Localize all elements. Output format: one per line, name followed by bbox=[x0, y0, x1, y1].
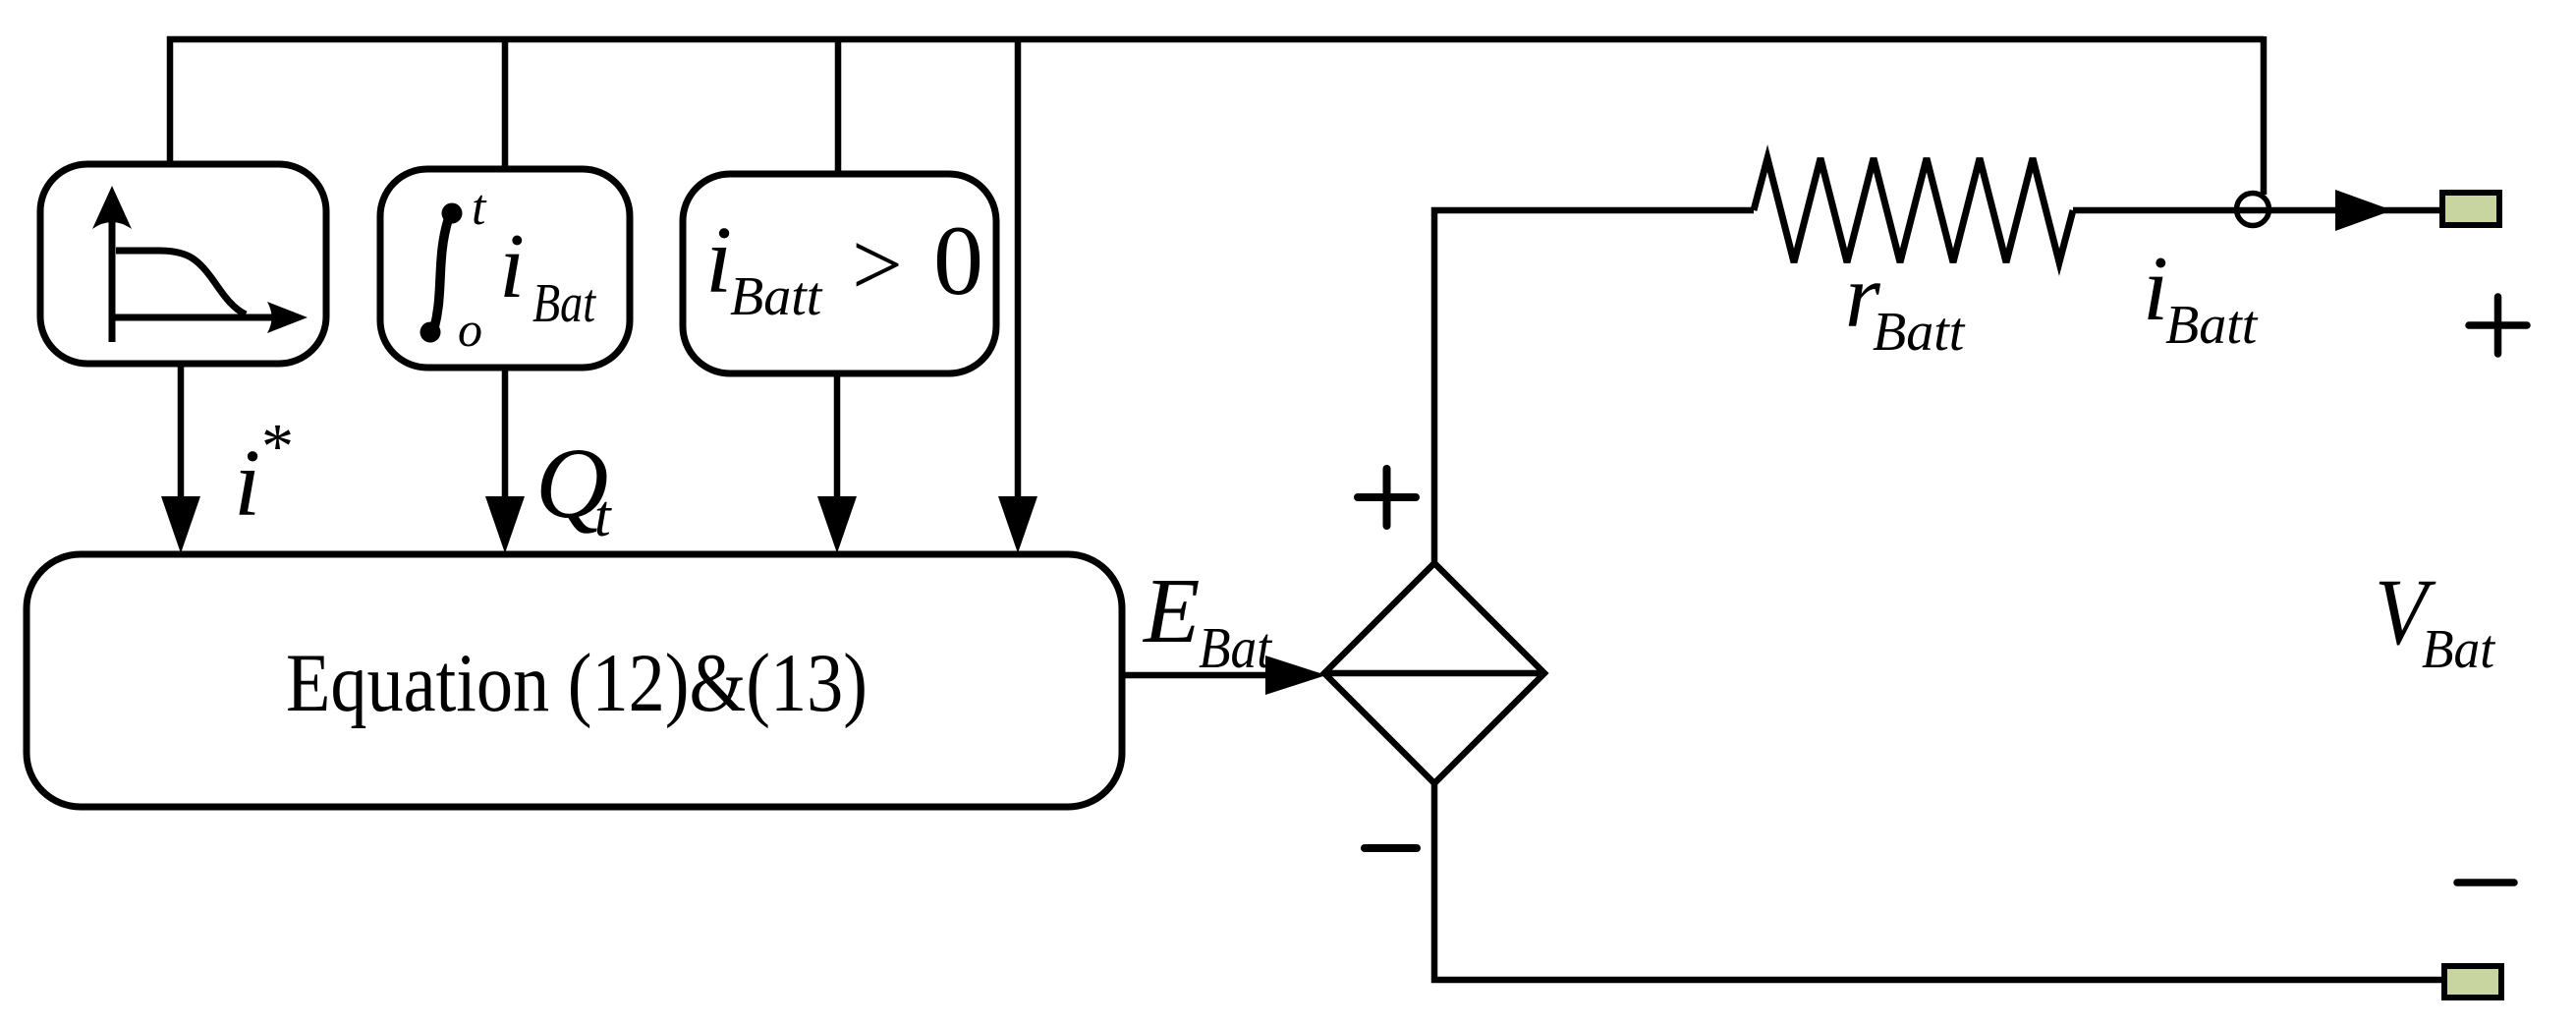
svg-text:i: i bbox=[705, 207, 732, 314]
wire drop direct to equation box bbox=[1015, 36, 1022, 498]
lookup graph curve bbox=[116, 251, 246, 314]
wire source bottom to minus terminal bbox=[1434, 783, 2444, 980]
lookup graph y-axis bbox=[109, 221, 116, 342]
integrator limits and integrand bbox=[458, 180, 596, 357]
arrow integrator to equation box bbox=[502, 368, 509, 498]
svg-text:i: i bbox=[234, 430, 260, 537]
plus terminal bbox=[2442, 193, 2499, 225]
svg-text:>: > bbox=[852, 214, 903, 314]
wire resistor to plus terminal bbox=[2073, 207, 2442, 214]
wire drop to lookup box bbox=[167, 36, 174, 164]
label VBat bbox=[2375, 559, 2495, 680]
wire drop right end of bus to current node bbox=[2261, 36, 2268, 195]
label iBatt bbox=[2143, 238, 2259, 356]
svg-text:Bat: Bat bbox=[532, 273, 596, 334]
minus sign at source bbox=[1365, 844, 1417, 852]
label EBat bbox=[1142, 560, 1272, 680]
label rBatt bbox=[1845, 246, 1966, 363]
wire source top to resistor bbox=[1434, 210, 1754, 563]
wire top bus bbox=[167, 36, 2264, 43]
svg-text:E: E bbox=[1142, 560, 1200, 662]
arrow lookup to equation box bbox=[178, 364, 185, 498]
dependent source diamond bbox=[1324, 563, 1544, 783]
svg-text:*: * bbox=[261, 411, 294, 483]
svg-text:Batt: Batt bbox=[1873, 302, 1966, 363]
current direction arrow bbox=[2335, 190, 2392, 231]
integrator block bbox=[380, 169, 630, 368]
equation block bbox=[27, 554, 1122, 807]
svg-text:Equation (12)&(13): Equation (12)&(13) bbox=[286, 637, 868, 729]
svg-text:t: t bbox=[594, 484, 612, 548]
lookup graph x-axis bbox=[112, 314, 273, 321]
svg-text:t: t bbox=[472, 180, 487, 236]
plus sign at terminal bbox=[2469, 297, 2527, 354]
svg-text:Batt: Batt bbox=[2165, 295, 2259, 356]
svg-text:0: 0 bbox=[933, 205, 983, 316]
arrow comparator to equation box bbox=[834, 373, 841, 498]
svg-text:Batt: Batt bbox=[730, 266, 823, 327]
svg-text:Bat: Bat bbox=[1199, 615, 1272, 680]
svg-text:i: i bbox=[499, 215, 525, 317]
lookup table block (SOC curve) bbox=[40, 164, 326, 364]
comparator block bbox=[683, 174, 996, 373]
minus sign at terminal bbox=[2457, 879, 2514, 886]
wire drop to integrator box bbox=[502, 36, 509, 169]
svg-text:o: o bbox=[458, 302, 482, 357]
current measurement node bbox=[2237, 194, 2269, 226]
label Qt bbox=[535, 428, 612, 548]
wire EBat output with arrow bbox=[1122, 672, 1272, 679]
label i* bbox=[234, 411, 294, 537]
comparator text bbox=[705, 205, 983, 327]
integrator text: integral sign bbox=[420, 203, 463, 343]
svg-text:Bat: Bat bbox=[2422, 619, 2495, 680]
wire drop to comparator box bbox=[835, 36, 842, 174]
plus sign at source bbox=[1358, 469, 1416, 526]
resistor rBatt bbox=[1754, 158, 2073, 262]
minus terminal bbox=[2444, 966, 2501, 998]
